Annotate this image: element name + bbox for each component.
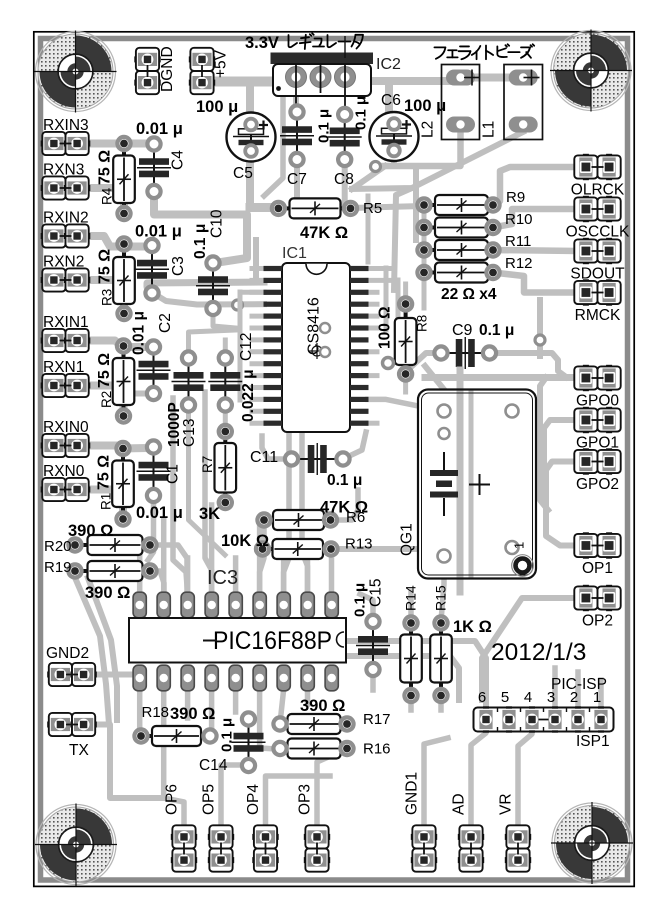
svg-text:C4: C4 [170, 150, 187, 170]
svg-text:0.1 μ: 0.1 μ [316, 109, 333, 143]
svg-text:0.1 μ: 0.1 μ [192, 224, 209, 259]
svg-text:GND2: GND2 [46, 645, 89, 662]
svg-text:3K: 3K [199, 505, 220, 523]
svg-text:4: 4 [524, 689, 532, 706]
svg-text:RXN3: RXN3 [43, 162, 84, 179]
svg-text:0.1 μ: 0.1 μ [219, 718, 236, 752]
svg-text:R19: R19 [44, 559, 72, 576]
svg-text:1K Ω: 1K Ω [453, 618, 492, 636]
svg-text:RXN2: RXN2 [43, 254, 84, 271]
svg-text:3: 3 [547, 689, 555, 706]
svg-text:R15: R15 [433, 585, 449, 611]
svg-text:75 Ω: 75 Ω [96, 353, 113, 388]
svg-text:OP1: OP1 [582, 560, 613, 577]
svg-text:R9: R9 [506, 189, 525, 206]
svg-text:OLRCK: OLRCK [571, 182, 625, 199]
svg-text:IC2: IC2 [376, 56, 401, 73]
svg-text:C9: C9 [452, 322, 473, 339]
svg-text:R20: R20 [44, 538, 72, 555]
svg-text:1: 1 [512, 542, 527, 549]
svg-text:IC1: IC1 [282, 245, 307, 262]
svg-text:PIC16F88P: PIC16F88P [213, 627, 332, 655]
svg-text:RXIN3: RXIN3 [43, 117, 89, 134]
svg-text:R12: R12 [505, 255, 533, 272]
svg-text:390 Ω: 390 Ω [85, 584, 130, 602]
svg-text:C1: C1 [165, 464, 182, 484]
svg-text:RXIN1: RXIN1 [43, 314, 89, 331]
svg-text:GND1: GND1 [404, 772, 421, 815]
svg-text:47K Ω: 47K Ω [300, 224, 348, 242]
svg-text:OP2: OP2 [582, 613, 613, 630]
svg-text:R3: R3 [100, 289, 115, 306]
svg-text:R7: R7 [200, 456, 215, 473]
svg-text:C11: C11 [250, 449, 278, 466]
svg-text:2012/1/3: 2012/1/3 [491, 639, 586, 666]
svg-text:R6: R6 [346, 509, 365, 526]
svg-text:R8: R8 [415, 315, 430, 332]
svg-text:OP5: OP5 [201, 784, 218, 815]
svg-text:C6: C6 [381, 92, 401, 109]
svg-text:GPO0: GPO0 [576, 393, 619, 410]
svg-text:22 Ω x4: 22 Ω x4 [441, 286, 497, 303]
svg-text:390 Ω: 390 Ω [300, 697, 345, 715]
svg-text:2: 2 [570, 689, 578, 706]
svg-text:100 μ: 100 μ [404, 97, 446, 115]
svg-text:0.022 μ: 0.022 μ [240, 369, 257, 422]
svg-text:C8: C8 [334, 171, 354, 188]
svg-text:3.3V: 3.3V [245, 34, 279, 52]
svg-text:C3: C3 [170, 256, 187, 276]
svg-text:AD: AD [451, 793, 468, 815]
svg-text:OP3: OP3 [297, 784, 314, 815]
svg-text:R10: R10 [505, 211, 533, 228]
svg-text:RXIN2: RXIN2 [43, 210, 89, 227]
svg-text:390 Ω: 390 Ω [68, 522, 113, 540]
svg-text:ISP1: ISP1 [576, 733, 610, 750]
svg-text:6: 6 [478, 689, 486, 706]
svg-text:DGND: DGND [159, 46, 176, 92]
svg-text:C7: C7 [287, 171, 307, 188]
svg-text:R2: R2 [99, 391, 114, 408]
svg-text:5: 5 [501, 689, 509, 706]
svg-text:OP4: OP4 [245, 784, 262, 815]
svg-text:RMCK: RMCK [575, 307, 621, 324]
svg-text:R13: R13 [345, 536, 373, 553]
svg-text:RXN0: RXN0 [43, 463, 85, 480]
svg-text:C13: C13 [181, 419, 198, 447]
svg-text:GPO2: GPO2 [576, 476, 619, 493]
svg-text:75 Ω: 75 Ω [96, 455, 113, 490]
svg-text:0.1 μ: 0.1 μ [353, 96, 370, 130]
svg-text:R18: R18 [142, 704, 170, 721]
svg-text:R11: R11 [505, 233, 531, 250]
svg-text:C14: C14 [199, 757, 228, 774]
svg-text:R17: R17 [363, 711, 391, 728]
svg-text:R4: R4 [100, 187, 115, 205]
svg-text:QG1: QG1 [399, 523, 416, 556]
svg-text:C5: C5 [233, 165, 253, 182]
svg-text:100 μ: 100 μ [196, 98, 238, 116]
svg-text:0.1 μ: 0.1 μ [327, 472, 362, 489]
svg-text:0.01 μ: 0.01 μ [131, 311, 148, 355]
svg-text:10K Ω: 10K Ω [221, 532, 269, 550]
svg-text:L2: L2 [420, 121, 437, 138]
svg-text:R1: R1 [99, 493, 114, 510]
svg-text:0.01 μ: 0.01 μ [135, 223, 182, 241]
svg-text:100 Ω: 100 Ω [377, 306, 394, 349]
svg-text:OP6: OP6 [164, 784, 181, 815]
svg-text:0.01 μ: 0.01 μ [136, 120, 183, 138]
svg-text:L1: L1 [481, 121, 498, 138]
svg-text:390 Ω: 390 Ω [170, 705, 215, 723]
svg-text:C2: C2 [157, 313, 174, 333]
svg-text:RXN1: RXN1 [43, 359, 84, 376]
svg-text:0.01 μ: 0.01 μ [136, 504, 183, 522]
svg-text:RXIN0: RXIN0 [43, 419, 89, 436]
svg-text:R14: R14 [403, 585, 419, 611]
svg-text:0.1 μ: 0.1 μ [352, 583, 369, 617]
svg-text:OSCCLK: OSCCLK [566, 224, 630, 241]
svg-text:75 Ω: 75 Ω [97, 150, 114, 185]
svg-text:R5: R5 [363, 200, 382, 217]
svg-text:VR: VR [498, 793, 515, 815]
svg-text:R16: R16 [363, 741, 391, 758]
svg-text:TX: TX [69, 742, 89, 759]
svg-text:+5V: +5V [213, 49, 230, 78]
svg-text:C10: C10 [208, 209, 225, 238]
svg-text:75 Ω: 75 Ω [97, 249, 114, 284]
svg-text:0.1 μ: 0.1 μ [479, 322, 514, 339]
svg-text:C12: C12 [238, 333, 255, 361]
svg-text:1: 1 [593, 689, 601, 706]
svg-text:C15: C15 [368, 579, 385, 607]
svg-text:IC3: IC3 [207, 567, 238, 589]
